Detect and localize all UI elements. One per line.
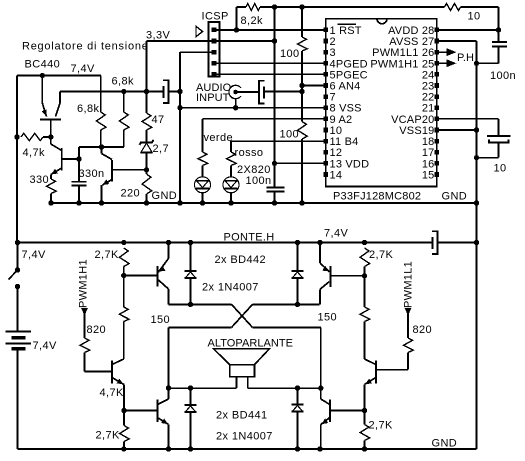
- svg-text:6,8k: 6,8k: [112, 76, 134, 88]
- svg-text:GND: GND: [442, 191, 468, 203]
- svg-text:GND: GND: [432, 438, 458, 450]
- svg-text:2,7K: 2,7K: [369, 249, 393, 261]
- svg-text:150: 150: [151, 314, 171, 326]
- svg-text:2x BD441: 2x BD441: [216, 410, 268, 422]
- svg-text:2,7: 2,7: [153, 143, 170, 155]
- svg-text:820: 820: [87, 324, 107, 336]
- svg-text:PWM1L1: PWM1L1: [403, 261, 415, 308]
- svg-text:2,7K: 2,7K: [96, 430, 120, 442]
- svg-text:ICSP: ICSP: [202, 11, 229, 23]
- svg-text:verde: verde: [204, 132, 234, 144]
- svg-text:10: 10: [494, 163, 507, 175]
- svg-text:3,3V: 3,3V: [146, 30, 170, 42]
- svg-text:7,4V: 7,4V: [22, 249, 46, 261]
- svg-text:GND: GND: [152, 190, 178, 202]
- svg-text:820: 820: [413, 324, 433, 336]
- svg-text:330: 330: [30, 174, 50, 186]
- svg-text:100: 100: [280, 48, 300, 60]
- svg-text:INPUT: INPUT: [196, 92, 230, 104]
- svg-text:8,2k: 8,2k: [241, 15, 263, 27]
- svg-text:PONTE.H: PONTE.H: [224, 232, 275, 244]
- svg-text:15: 15: [422, 169, 435, 181]
- svg-text:2,7K: 2,7K: [95, 249, 119, 261]
- svg-text:100: 100: [280, 129, 300, 141]
- svg-text:10: 10: [468, 11, 481, 23]
- svg-text:7,4V: 7,4V: [33, 340, 57, 352]
- svg-text:7,4V: 7,4V: [71, 63, 95, 75]
- svg-text:14: 14: [330, 169, 343, 181]
- svg-text:6,8k: 6,8k: [77, 103, 99, 115]
- svg-text:150: 150: [318, 312, 338, 324]
- svg-text:2x 1N4007: 2x 1N4007: [216, 431, 273, 443]
- svg-text:P.H: P.H: [457, 52, 474, 64]
- svg-text:PWM1H1: PWM1H1: [78, 259, 90, 308]
- svg-text:P33FJ128MC802: P33FJ128MC802: [333, 191, 421, 203]
- svg-text:330n: 330n: [79, 168, 105, 180]
- svg-text:100n: 100n: [246, 175, 272, 187]
- svg-text:4,7K: 4,7K: [100, 387, 124, 399]
- svg-text:47: 47: [152, 114, 165, 126]
- svg-text:2,7K: 2,7K: [369, 420, 393, 432]
- svg-text:2x 1N4007: 2x 1N4007: [202, 282, 259, 294]
- svg-text:rosso: rosso: [235, 147, 264, 159]
- svg-text:BC440: BC440: [25, 59, 61, 71]
- svg-text:Regolatore di tensione: Regolatore di tensione: [22, 41, 149, 53]
- svg-text:4,7k: 4,7k: [23, 147, 45, 159]
- svg-text:ALTOPARLANTE: ALTOPARLANTE: [208, 338, 294, 350]
- svg-text:2x BD442: 2x BD442: [215, 254, 267, 266]
- svg-text:100n: 100n: [490, 70, 516, 82]
- svg-text:220: 220: [121, 188, 141, 200]
- svg-text:7,4V: 7,4V: [324, 228, 348, 240]
